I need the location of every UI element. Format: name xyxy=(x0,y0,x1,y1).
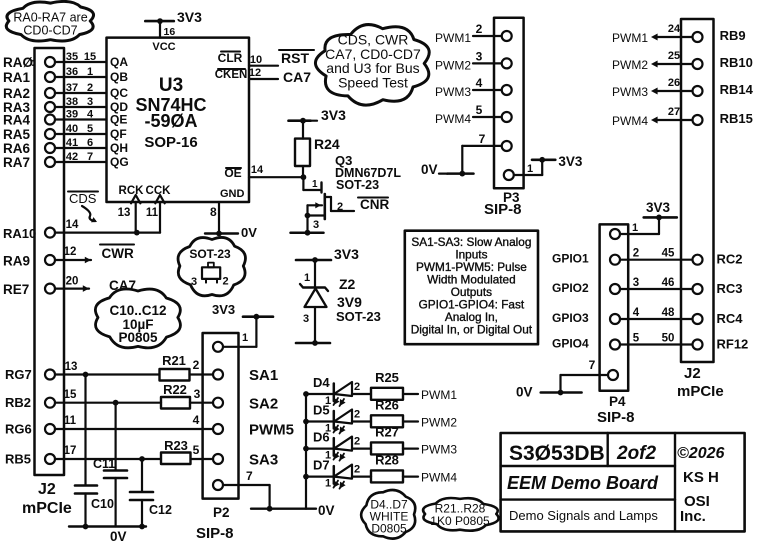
svg-text:26: 26 xyxy=(668,77,680,89)
svg-text:RB2: RB2 xyxy=(5,395,31,410)
svg-text:0V: 0V xyxy=(421,162,438,177)
svg-text:7: 7 xyxy=(479,132,486,146)
wire RG6 pin 11 to P2 pin 4 xyxy=(5,413,213,437)
svg-text:mPCIe: mPCIe xyxy=(677,383,724,400)
wire RB5 pin 17 to R23 xyxy=(5,445,161,467)
svg-text:35: 35 xyxy=(66,51,78,63)
svg-text:1: 1 xyxy=(304,272,310,284)
U3 GND pin 8 to 0V xyxy=(205,202,257,240)
wire GPIO3 P4 pin 4 to J2 pin 48 (RC4) xyxy=(552,307,743,326)
wire RA1 (pin 36) to U3 QB (pin 1) xyxy=(3,66,128,85)
svg-text:PWM3: PWM3 xyxy=(435,85,471,99)
svg-text:CD0-CD7: CD0-CD7 xyxy=(23,24,77,38)
svg-text:5: 5 xyxy=(87,123,93,135)
svg-text:PWM3: PWM3 xyxy=(421,443,457,457)
svg-text:R23: R23 xyxy=(164,438,188,453)
P4 pin 7 to 0V ground xyxy=(516,358,618,400)
note cloud: C10..C12 10uF P0805 xyxy=(95,289,180,348)
svg-text:36: 36 xyxy=(66,66,78,78)
svg-text:3: 3 xyxy=(303,313,309,325)
svg-text:SOT-23: SOT-23 xyxy=(336,309,381,324)
wire RG7 pin 13 to R21 xyxy=(5,361,160,382)
svg-text:RF12: RF12 xyxy=(717,337,749,352)
svg-text:©2026: ©2026 xyxy=(677,445,724,462)
svg-text:4: 4 xyxy=(476,76,483,90)
P2 pin 3 SA2 xyxy=(213,396,278,413)
svg-text:Digital In, or Digital Out: Digital In, or Digital Out xyxy=(411,323,533,337)
svg-text:10: 10 xyxy=(250,54,262,66)
svg-text:D4: D4 xyxy=(313,375,330,390)
svg-text:4: 4 xyxy=(193,413,200,427)
svg-text:C10..C12: C10..C12 xyxy=(109,303,166,318)
svg-text:PWM2: PWM2 xyxy=(421,416,457,430)
wire RE7 pin 20 to net CA7 xyxy=(3,276,136,298)
title block text: copyright 2026 xyxy=(677,445,724,462)
resistor R22 xyxy=(161,382,213,409)
wire PWM4 to P3 pin 5 xyxy=(435,103,512,126)
svg-text:GPIO4: GPIO4 xyxy=(552,337,589,351)
svg-text:GPIO2: GPIO2 xyxy=(552,281,589,295)
svg-text:2: 2 xyxy=(354,436,360,448)
svg-text:RA1: RA1 xyxy=(3,70,30,85)
svg-text:C12: C12 xyxy=(149,503,172,517)
svg-text:3V3: 3V3 xyxy=(321,107,346,123)
wire PWM4 from J2 pin 27 (RB15) xyxy=(612,106,753,128)
svg-text:3V9: 3V9 xyxy=(337,294,362,310)
svg-text:7: 7 xyxy=(87,151,93,163)
svg-text:2: 2 xyxy=(354,381,360,393)
svg-text:PWM5: PWM5 xyxy=(249,422,294,439)
svg-text:J2: J2 xyxy=(38,481,56,498)
svg-text:7: 7 xyxy=(246,469,253,483)
wire RB2 pin 15 to R22 xyxy=(5,389,161,410)
svg-text:Speed Test: Speed Test xyxy=(338,75,408,91)
svg-text:15: 15 xyxy=(64,389,77,401)
wire RAØ (pin 35) to U3 QA (pin 15) xyxy=(3,51,128,70)
svg-text:20: 20 xyxy=(66,276,79,288)
net label CDS with pointer to RA10 wire xyxy=(68,191,98,222)
U3 pin 14 OE wire to R24/Q3 node xyxy=(224,164,303,180)
svg-text:3V3: 3V3 xyxy=(334,246,359,262)
svg-text:3V3: 3V3 xyxy=(558,154,583,169)
svg-text:16: 16 xyxy=(164,26,176,38)
svg-text:14: 14 xyxy=(66,219,79,231)
svg-text:0V: 0V xyxy=(318,503,335,518)
svg-text:46: 46 xyxy=(662,277,675,289)
svg-text:4: 4 xyxy=(87,109,94,121)
svg-text:11: 11 xyxy=(146,207,159,219)
title block text: Demo Signals and Lamps xyxy=(509,508,658,523)
capacitor C10 xyxy=(75,375,114,527)
note cloud: RA0-RA7 are CD0-CD7 xyxy=(6,1,93,41)
svg-text:CDS: CDS xyxy=(69,191,97,206)
svg-text:CCK: CCK xyxy=(146,185,172,197)
svg-text:0V: 0V xyxy=(241,225,257,240)
wire RA9 pin 12 to net CWR xyxy=(3,245,134,269)
svg-text:PWM4: PWM4 xyxy=(435,112,471,126)
svg-text:1: 1 xyxy=(325,478,331,490)
svg-text:QB: QB xyxy=(110,70,128,84)
wire RA3 (pin 38) to U3 QD (pin 3) xyxy=(3,96,128,115)
svg-text:RA9: RA9 xyxy=(3,254,30,269)
svg-text:3: 3 xyxy=(313,219,319,231)
svg-text:R26: R26 xyxy=(375,398,399,413)
svg-text:VCC: VCC xyxy=(152,41,175,53)
svg-text:5: 5 xyxy=(633,333,640,345)
svg-text:QE: QE xyxy=(110,113,127,127)
svg-text:8: 8 xyxy=(210,205,217,219)
P3 pin 1 to 3V3 xyxy=(504,154,583,180)
P2 pin 1 to 3V3 xyxy=(212,302,273,352)
svg-text:11: 11 xyxy=(64,415,77,427)
svg-text:SA3: SA3 xyxy=(249,452,278,469)
svg-text:RA10: RA10 xyxy=(3,226,36,241)
svg-text:PWM2: PWM2 xyxy=(612,58,648,72)
svg-text:13: 13 xyxy=(65,361,78,373)
U3 clock pins RCK pin 13 and CCK pin 11 xyxy=(118,185,172,233)
IC U3 SN74HC590A SOP-16 xyxy=(107,38,250,202)
svg-text:1: 1 xyxy=(312,179,318,190)
wire RA4 (pin 39) to U3 QE (pin 4) xyxy=(3,109,127,128)
svg-text:RE7: RE7 xyxy=(3,282,29,297)
wire PWM2 from J2 pin 25 (RB10) xyxy=(612,50,753,72)
svg-text:2: 2 xyxy=(476,22,483,36)
svg-text:39: 39 xyxy=(66,109,78,121)
LED D4 with resistor R25 to PWM1 xyxy=(306,370,457,407)
wire RA6 (pin 41) to U3 QH (pin 6) xyxy=(3,137,128,156)
svg-text:12: 12 xyxy=(64,246,77,258)
transistor Q3 DMN67D7L SOT-23 N-MOSFET xyxy=(291,153,402,236)
svg-text:PWM1: PWM1 xyxy=(435,31,471,45)
connector P4 SIP-8 xyxy=(597,224,635,426)
svg-text:GND: GND xyxy=(220,188,245,200)
svg-text:3V3: 3V3 xyxy=(646,200,671,215)
wire RA2 (pin 37) to U3 QC (pin 2) xyxy=(3,82,128,101)
svg-text:2: 2 xyxy=(633,248,639,260)
svg-text:38: 38 xyxy=(66,96,78,108)
title block text: EEM Demo Board xyxy=(507,473,659,493)
svg-text:C10: C10 xyxy=(91,497,114,511)
svg-text:C11: C11 xyxy=(93,457,115,471)
svg-text:Inc.: Inc. xyxy=(680,508,706,525)
0V rail bottom left xyxy=(69,524,146,544)
svg-text:2: 2 xyxy=(87,82,93,94)
svg-text:R22: R22 xyxy=(163,382,187,397)
wire PWM3 to P3 pin 4 xyxy=(435,76,512,99)
svg-text:37: 37 xyxy=(66,82,78,94)
svg-text:Demo Signals and Lamps: Demo Signals and Lamps xyxy=(509,508,658,523)
svg-text:U3: U3 xyxy=(159,75,183,96)
svg-text:QF: QF xyxy=(110,127,127,141)
wire RA7 (pin 42) to U3 QG (pin 7) xyxy=(3,151,129,170)
connector P2 SIP-8 xyxy=(196,333,239,542)
svg-text:14: 14 xyxy=(251,164,264,176)
svg-text:RST: RST xyxy=(281,50,309,66)
svg-text:45: 45 xyxy=(662,248,675,260)
svg-text:RC2: RC2 xyxy=(717,252,743,267)
svg-text:RAØ: RAØ xyxy=(3,55,33,70)
svg-text:50: 50 xyxy=(662,333,675,345)
svg-text:R24: R24 xyxy=(314,136,340,152)
svg-text:CA7: CA7 xyxy=(283,69,311,85)
svg-text:RCK: RCK xyxy=(119,185,145,197)
svg-text:R28: R28 xyxy=(375,453,399,468)
connector J2 mPCIe (left) xyxy=(22,48,72,517)
svg-text:QC: QC xyxy=(110,86,128,100)
svg-text:SIP-8: SIP-8 xyxy=(196,525,234,542)
wire RA5 (pin 40) to U3 QF (pin 5) xyxy=(3,123,127,142)
svg-text:41: 41 xyxy=(66,137,78,149)
svg-text:17: 17 xyxy=(64,445,77,457)
resistor R21 xyxy=(160,353,214,381)
note cloud: R21..R28 1K0 P0805 xyxy=(423,498,498,531)
capacitor C11 xyxy=(93,403,127,527)
svg-text:CNR: CNR xyxy=(360,197,389,212)
title block xyxy=(501,433,745,531)
svg-text:QH: QH xyxy=(110,141,128,155)
svg-text:KS H: KS H xyxy=(683,469,719,486)
svg-text:48: 48 xyxy=(662,307,675,319)
svg-text:3V3: 3V3 xyxy=(212,302,235,317)
svg-text:RA5: RA5 xyxy=(3,127,30,142)
LED D5 with resistor R26 to PWM2 xyxy=(306,398,457,435)
svg-text:D0805: D0805 xyxy=(371,522,407,536)
wire GPIO2 P4 pin 3 to J2 pin 46 (RC3) xyxy=(552,277,743,296)
connector J2 mPCIe (right) xyxy=(677,19,724,400)
svg-text:25: 25 xyxy=(668,50,680,62)
svg-text:-59ØA: -59ØA xyxy=(144,111,197,131)
svg-text:RG6: RG6 xyxy=(5,422,32,437)
svg-text:RB15: RB15 xyxy=(720,111,753,126)
svg-text:P0805: P0805 xyxy=(118,330,158,345)
title block text: part number S3053DB xyxy=(509,442,605,465)
svg-text:27: 27 xyxy=(668,106,680,118)
svg-text:6: 6 xyxy=(87,137,93,149)
svg-text:2of2: 2of2 xyxy=(616,443,657,464)
LED D7 with resistor R28 to PWM4 xyxy=(306,453,457,490)
svg-text:42: 42 xyxy=(66,151,78,163)
svg-text:SOT-23: SOT-23 xyxy=(189,247,231,261)
svg-text:3: 3 xyxy=(476,49,483,63)
svg-text:RB5: RB5 xyxy=(5,452,31,467)
svg-text:SA1: SA1 xyxy=(249,367,278,384)
P2 pin 5 SA3 xyxy=(213,452,278,469)
connector P3 SIP-8 xyxy=(484,18,524,218)
P4 pin 1 to 3V3 xyxy=(610,200,677,239)
svg-text:SIP-8: SIP-8 xyxy=(597,409,635,426)
svg-text:2: 2 xyxy=(354,464,360,476)
svg-text:CKEN: CKEN xyxy=(215,69,248,81)
svg-text:2: 2 xyxy=(337,201,343,213)
svg-text:SOP-16: SOP-16 xyxy=(144,134,197,151)
svg-text:24: 24 xyxy=(668,23,681,35)
svg-text:RA6: RA6 xyxy=(3,141,30,156)
svg-text:1: 1 xyxy=(632,222,638,234)
LED D6 with resistor R27 to PWM3 xyxy=(306,425,457,462)
title block text: KS H xyxy=(683,469,719,486)
svg-text:GPIO1: GPIO1 xyxy=(552,252,589,266)
svg-text:SIP-8: SIP-8 xyxy=(484,201,522,218)
svg-text:P4: P4 xyxy=(609,394,626,409)
svg-text:SA2: SA2 xyxy=(249,396,278,413)
svg-text:RA0-RA7 are: RA0-RA7 are xyxy=(13,11,87,25)
wire PWM1 from J2 pin 24 (RB9) xyxy=(612,23,746,45)
svg-text:5: 5 xyxy=(193,443,200,457)
svg-text:0V: 0V xyxy=(110,529,127,544)
svg-text:D5: D5 xyxy=(313,403,330,418)
svg-text:RA4: RA4 xyxy=(3,113,30,128)
svg-text:5: 5 xyxy=(476,103,483,117)
svg-text:CLR: CLR xyxy=(218,51,243,65)
svg-text:1K0 P0805: 1K0 P0805 xyxy=(430,514,490,528)
svg-text:4: 4 xyxy=(633,307,640,319)
svg-text:2: 2 xyxy=(193,358,200,372)
svg-text:PWM3: PWM3 xyxy=(612,85,648,99)
svg-text:7: 7 xyxy=(589,358,596,372)
capacitor C12 xyxy=(130,459,172,527)
svg-text:0V: 0V xyxy=(516,385,533,400)
svg-text:1: 1 xyxy=(87,66,93,78)
svg-text:3: 3 xyxy=(633,277,639,289)
svg-text:D6: D6 xyxy=(313,430,330,445)
svg-text:RG7: RG7 xyxy=(5,367,32,382)
svg-text:RB9: RB9 xyxy=(720,28,746,43)
wire GPIO1 P4 pin 2 to J2 pin 45 (RC2) xyxy=(552,248,743,267)
svg-text:3: 3 xyxy=(191,276,197,288)
svg-text:40: 40 xyxy=(66,123,78,135)
note cloud: CDS CWR CA7 CD0-CD7 and U3 for Bus Speed Test xyxy=(315,25,429,106)
svg-text:D7: D7 xyxy=(313,458,330,473)
title block text: OSI Inc. xyxy=(680,493,710,525)
svg-text:J2: J2 xyxy=(684,365,701,382)
svg-text:RC3: RC3 xyxy=(717,281,743,296)
svg-text:S3Ø53DB: S3Ø53DB xyxy=(509,442,605,465)
svg-text:1: 1 xyxy=(242,332,248,344)
svg-text:RA2: RA2 xyxy=(3,86,30,101)
note cloud: D4..D7 WHITE D0805 xyxy=(361,490,415,539)
power 3V3 to U3 VCC pin 16 xyxy=(145,9,202,38)
svg-text:RB10: RB10 xyxy=(720,55,753,70)
svg-text:mPCIe: mPCIe xyxy=(22,500,72,517)
svg-text:GPIO3: GPIO3 xyxy=(552,311,589,325)
resistor R24 from 3V3 to Q3 gate node xyxy=(289,107,347,177)
wire PWM1 to P3 pin 2 xyxy=(435,22,512,45)
svg-text:15: 15 xyxy=(84,51,96,63)
note cloud: SOT-23 package drawing xyxy=(178,237,245,295)
svg-text:P2: P2 xyxy=(213,505,230,520)
svg-text:CWR: CWR xyxy=(102,246,134,261)
LED cathode rail to 0V xyxy=(303,391,309,509)
svg-text:3: 3 xyxy=(194,387,201,401)
zener diode Z2 3V9 SOT-23 xyxy=(296,246,381,346)
svg-text:2: 2 xyxy=(354,409,360,421)
resistor R23 xyxy=(161,438,213,464)
svg-text:3: 3 xyxy=(87,96,93,108)
svg-text:PWM1: PWM1 xyxy=(421,388,457,402)
svg-text:RB14: RB14 xyxy=(720,82,754,97)
wire PWM2 to P3 pin 3 xyxy=(435,49,512,72)
svg-text:RA7: RA7 xyxy=(3,155,30,170)
svg-text:PWM1: PWM1 xyxy=(612,31,648,45)
svg-text:R25: R25 xyxy=(375,370,399,385)
svg-text:QA: QA xyxy=(110,55,128,69)
svg-text:QG: QG xyxy=(110,155,129,169)
svg-text:SOT-23: SOT-23 xyxy=(336,178,379,192)
wire PWM3 from J2 pin 26 (RB14) xyxy=(612,77,754,99)
svg-text:R21: R21 xyxy=(162,353,186,368)
svg-text:PWM2: PWM2 xyxy=(435,58,471,72)
P2 pin 4 PWM5 xyxy=(213,422,294,439)
svg-text:EEM Demo Board: EEM Demo Board xyxy=(507,473,659,493)
P2 pin 7 to 0V xyxy=(213,469,335,518)
svg-text:3V3: 3V3 xyxy=(177,9,202,25)
wire RA10 pin 14 to U3 RCK/CCK xyxy=(3,219,160,241)
svg-text:12: 12 xyxy=(249,67,261,79)
svg-text:PWM4: PWM4 xyxy=(612,114,648,128)
wire GPIO4 P4 pin 5 to J2 pin 50 (RF12) xyxy=(552,333,748,352)
P3 pin 7 to 0V ground xyxy=(421,132,512,177)
svg-text:Z2: Z2 xyxy=(339,276,356,292)
svg-text:2: 2 xyxy=(223,276,229,288)
U3 pin 10 CLR to net RST xyxy=(218,50,314,66)
svg-text:13: 13 xyxy=(118,207,131,219)
title block text: sheet 2of2 xyxy=(616,443,657,464)
svg-text:R27: R27 xyxy=(375,425,399,440)
U3 pin 12 CKEN to net CA7 xyxy=(215,67,312,85)
svg-text:RC4: RC4 xyxy=(717,311,744,326)
note box: signal descriptions xyxy=(405,231,538,345)
P2 pin 2 SA1 xyxy=(213,367,278,384)
svg-text:1: 1 xyxy=(527,163,533,175)
svg-text:PWM4: PWM4 xyxy=(421,471,457,485)
